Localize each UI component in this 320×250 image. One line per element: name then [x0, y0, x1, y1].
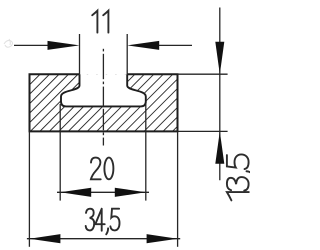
dim 34,5: left extension line — [28, 131, 30, 246]
dim 20: text "20" — [91, 158, 114, 180]
hatched body cross-section — [30, 74, 178, 131]
dim 11: right extension line — [126, 34, 128, 74]
dim 34,5: right extension line — [177, 131, 179, 246]
dim 34,5: dimension line — [27, 238, 180, 240]
dim 11: right arrow — [127, 41, 159, 50]
dim 11: left leader line — [14, 44, 50, 46]
dim 34,5: left arrow — [29, 234, 60, 243]
dim 20: right arrow — [115, 188, 146, 197]
dim 11: left extension line — [79, 34, 81, 74]
T-slot cutout fill — [61, 74, 146, 106]
dim 20: left extension line — [59, 104, 61, 201]
dim 13,5: top arrow (points down) — [215, 42, 224, 74]
dim 11: left arrow — [48, 41, 80, 50]
body outline — [30, 74, 178, 131]
dim 11: text "11" — [92, 11, 108, 33]
dim 11: right leader line — [156, 44, 192, 46]
dim 13,5: bottom arrow (points up) — [215, 131, 224, 163]
centerline (vertical dash-dot) — [102, 49, 104, 146]
T-slot cutout outline — [61, 74, 146, 106]
dim 13,5: text "13,5" rotated — [227, 154, 253, 200]
dim 20: right extension line — [145, 104, 147, 201]
stray print artifact — [4, 39, 13, 47]
dim 20: dimension line — [57, 191, 149, 193]
dim 13,5: vertical dimension line — [219, 8, 221, 181]
dim 13,5: top extension line (top surface extended) — [178, 73, 228, 75]
dim 13,5: bottom extension line (bottom surface extended) — [178, 130, 228, 132]
dim 34,5: text "34,5" — [86, 209, 120, 235]
dim 34,5: right arrow — [147, 234, 178, 243]
dim 20: left arrow — [60, 188, 91, 197]
